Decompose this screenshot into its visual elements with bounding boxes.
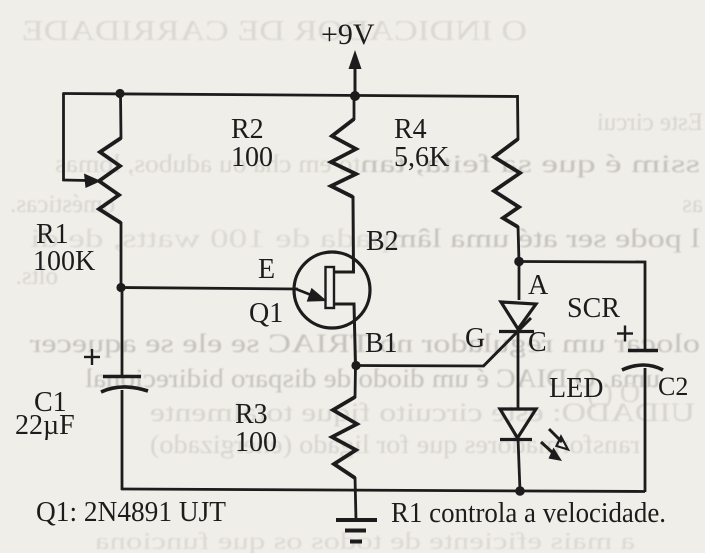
svg-text:E: E [258, 254, 275, 285]
svg-text:A: A [528, 270, 549, 301]
junction dot B1 node [351, 361, 360, 370]
label +9V [321, 18, 375, 51]
label C2 [658, 372, 688, 401]
wire right corner down from rail [516, 95, 519, 140]
wire LED bottom [518, 438, 520, 491]
svg-text:SCR: SCR [567, 293, 620, 324]
label R1 [36, 219, 69, 250]
capacitor C1 plus sign [84, 349, 100, 365]
label G [465, 323, 485, 354]
label R2 [231, 114, 264, 145]
wire B1 to gate G [356, 364, 484, 367]
svg-text:Este circui: Este circui [597, 109, 703, 136]
resistor R2 zigzag [331, 119, 356, 197]
wire R2 top [353, 96, 356, 120]
SCR cathode bar [499, 330, 534, 333]
potentiometer wiper arm of R1 [63, 174, 102, 189]
value label 22µF [15, 410, 75, 441]
svg-text:B2: B2 [366, 226, 399, 257]
value label 5,6K [394, 142, 449, 173]
resistor R4 zigzag [494, 139, 520, 227]
svg-text:R4: R4 [394, 114, 427, 145]
svg-text:Q1: 2N4891 UJT: Q1: 2N4891 UJT [36, 496, 226, 528]
wire B1 lead from Q1 down [334, 304, 356, 366]
label C1 [34, 387, 67, 418]
wire bottom rail [121, 489, 645, 492]
svg-text:+9V: +9V [321, 18, 375, 51]
capacitor C1 top plate [103, 375, 141, 379]
label C [528, 327, 547, 358]
Q1 base bar [326, 267, 335, 308]
wire R1 top [119, 93, 122, 139]
label R4 [394, 114, 427, 145]
wire SCR anode [518, 261, 521, 300]
svg-text:R2: R2 [231, 114, 264, 145]
wire C1 top from E node [121, 287, 124, 375]
svg-text:O INDICADOR DE CARRIDADE: O INDICADOR DE CARRIDADE [22, 15, 527, 47]
wire R3 top [354, 365, 357, 398]
svg-text:R1 controla a velocidade.: R1 controla a velocidade. [391, 497, 666, 529]
svg-text:as: as [682, 191, 703, 218]
value label 100 [235, 427, 277, 458]
svg-text:5,6K: 5,6K [394, 142, 449, 173]
svg-text:C: C [528, 327, 547, 358]
svg-text:22µF: 22µF [15, 410, 75, 441]
junction dot LED/rail [515, 486, 525, 496]
wire SCR cathode to LED [517, 331, 520, 409]
SCR thyristor triangle [501, 302, 536, 329]
svg-text:omésticas.: omésticas. [10, 191, 115, 218]
wire B2 lead from R2 into Q1 [334, 196, 354, 272]
label B2 [366, 226, 399, 257]
capacitor C2 bottom plate [622, 365, 663, 370]
caption R1 controla a velocidade. [391, 497, 666, 529]
wire R3 bottom through rail [355, 477, 356, 520]
value label 100 [231, 142, 273, 173]
LED cathode bar [500, 438, 532, 441]
+9V supply arrow [349, 50, 362, 96]
svg-text:100: 100 [235, 427, 277, 458]
ground symbol [336, 520, 377, 542]
emitter E wire of Q1 [121, 288, 327, 302]
svg-text:100K: 100K [33, 246, 95, 277]
value label 100K [33, 246, 95, 277]
wire C1 bottom [121, 390, 124, 490]
svg-text:LED: LED [549, 373, 603, 404]
resistor R1 zigzag [99, 138, 121, 223]
junction dot E node [116, 283, 125, 292]
svg-text:a mais eficiente de todos os q: a mais eficiente de todos os que funcion… [95, 529, 635, 553]
capacitor C2 plus sign [617, 326, 633, 342]
label SCR [567, 293, 620, 324]
label B1 [365, 328, 398, 359]
diode LED triangle [500, 409, 536, 438]
LED light arrow upper [549, 429, 568, 450]
junction dot rail/R1 [115, 89, 124, 98]
resistor R3 zigzag [332, 397, 357, 478]
label E [258, 254, 275, 285]
capacitor C1 bottom plate [101, 387, 148, 392]
wire C2 bottom [644, 368, 647, 492]
label A [528, 270, 549, 301]
capacitor C2 top plate [628, 349, 658, 353]
label LED [549, 373, 603, 404]
svg-text:C2: C2 [658, 372, 688, 401]
SCR gate diagonal [483, 318, 531, 367]
wire R4 bottom [518, 226, 519, 262]
svg-text:R3: R3 [235, 399, 268, 430]
wire left stub down from rail [62, 93, 65, 182]
svg-text:to em chá ou adubos, lomas: to em chá ou adubos, lomas [55, 151, 360, 178]
wire top rail [63, 94, 518, 97]
caption Q1: 2N4891 UJT [36, 496, 226, 528]
svg-text:B1: B1 [365, 328, 398, 359]
label Q1 [249, 298, 283, 329]
wire anode to C2 [519, 262, 645, 351]
svg-text:100: 100 [231, 142, 273, 173]
transistor Q1 UJT circle [294, 252, 370, 328]
svg-text:Q1: Q1 [249, 298, 283, 329]
wire R1 bottom [120, 222, 123, 288]
svg-text:G: G [465, 323, 485, 354]
LED light arrow lower [541, 442, 562, 461]
label R3 [235, 399, 268, 430]
svg-text:l pode ser até uma lâm: l pode ser até uma lâm [390, 224, 700, 253]
junction dot rail/+9V/R2 [350, 91, 360, 101]
junction dot anode node [514, 257, 524, 267]
